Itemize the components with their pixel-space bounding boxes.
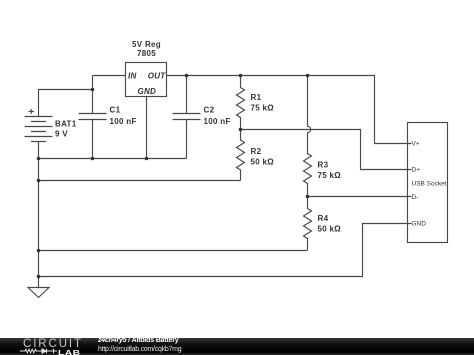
voltage regulator U1 7805 box — [126, 63, 167, 97]
capacitor C2 plates — [173, 114, 201, 120]
node C1 bottom junction — [91, 157, 95, 161]
node ground rail at battery — [37, 157, 41, 161]
wire R4 bottom rail — [39, 250, 308, 252]
USB socket box — [408, 123, 448, 243]
node R3 top junction — [306, 74, 310, 78]
node R1/R2/D+ junction — [239, 128, 243, 132]
svg-text:D-: D- — [412, 194, 419, 201]
svg-text:BAT1: BAT1 — [55, 120, 77, 129]
svg-text:50 kΩ: 50 kΩ — [318, 225, 342, 234]
svg-text:R4: R4 — [318, 214, 329, 223]
wire C2 top — [186, 76, 188, 114]
svg-text:GND: GND — [412, 221, 427, 228]
ground — [28, 288, 49, 298]
wire C1 bottom — [92, 120, 94, 159]
wire R2 bottom rail — [39, 180, 241, 182]
svg-text:R3: R3 — [318, 161, 329, 170]
wire USB GND to ground rail — [39, 224, 408, 277]
wire regulator GND — [146, 97, 148, 159]
resistor R2 — [237, 130, 245, 181]
resistor R3 with wire hop over D+ net — [304, 76, 312, 197]
wire R1/R2 node to USB D+ — [241, 130, 408, 170]
footer title line — [98, 337, 178, 344]
node R3/R4/D- junction — [306, 195, 310, 199]
node regulator GND junction — [145, 157, 149, 161]
wire ground rail under capacitors — [39, 158, 187, 160]
CircuitLab logo mark: wire, resistor zigzag, diode — [0, 346, 62, 355]
svg-text:9 V: 9 V — [55, 130, 68, 139]
svg-text:7805: 7805 — [137, 49, 156, 58]
wire OUT rail to USB V+ — [167, 76, 408, 144]
svg-text:USB Socket: USB Socket — [412, 181, 447, 188]
svg-text:D+: D+ — [412, 167, 421, 174]
footer bar — [0, 338, 474, 355]
battery BAT1 long plates — [25, 117, 53, 137]
wire node between battery, C1 and regulator IN — [92, 76, 94, 114]
svg-text:GND: GND — [137, 87, 156, 96]
svg-text:50 kΩ: 50 kΩ — [251, 158, 275, 167]
svg-text:100 nF: 100 nF — [204, 117, 231, 126]
resistor R1 — [237, 76, 245, 130]
svg-text:C1: C1 — [110, 106, 121, 115]
svg-text:OUT: OUT — [148, 72, 167, 81]
node R2 rail at battery — [37, 179, 41, 183]
battery BAT1 short plates — [31, 122, 46, 142]
svg-text:5V Reg: 5V Reg — [132, 40, 161, 49]
node R1 top junction — [239, 74, 243, 78]
svg-text:75 kΩ: 75 kΩ — [318, 171, 342, 180]
battery BAT1 positive terminal wire — [39, 90, 93, 117]
svg-text:V+: V+ — [412, 141, 420, 148]
wire battery negative to ground — [38, 142, 40, 288]
resistor R4 — [304, 197, 312, 251]
svg-text:IN: IN — [128, 72, 137, 81]
svg-text:75 kΩ: 75 kΩ — [251, 104, 275, 113]
battery plus sign — [29, 109, 35, 114]
node USB GND rail at battery — [37, 275, 41, 279]
wire C2 bottom — [186, 120, 188, 159]
svg-text:100 nF: 100 nF — [110, 117, 137, 126]
svg-text:C2: C2 — [204, 106, 215, 115]
CircuitLab logo text — [23, 339, 83, 351]
USB pin ticks — [408, 144, 412, 224]
capacitor C1 plates — [79, 114, 107, 120]
node battery/C1/IN junction — [91, 88, 95, 92]
node R4 rail at battery — [37, 249, 41, 253]
footer url line — [98, 346, 181, 353]
svg-text:R2: R2 — [251, 147, 262, 156]
wire to regulator IN — [93, 75, 126, 77]
logo LAB text — [58, 349, 81, 355]
node C2 top junction — [185, 74, 189, 78]
wire R3/R4 node to USB D- — [308, 196, 408, 198]
svg-text:R1: R1 — [251, 93, 262, 102]
